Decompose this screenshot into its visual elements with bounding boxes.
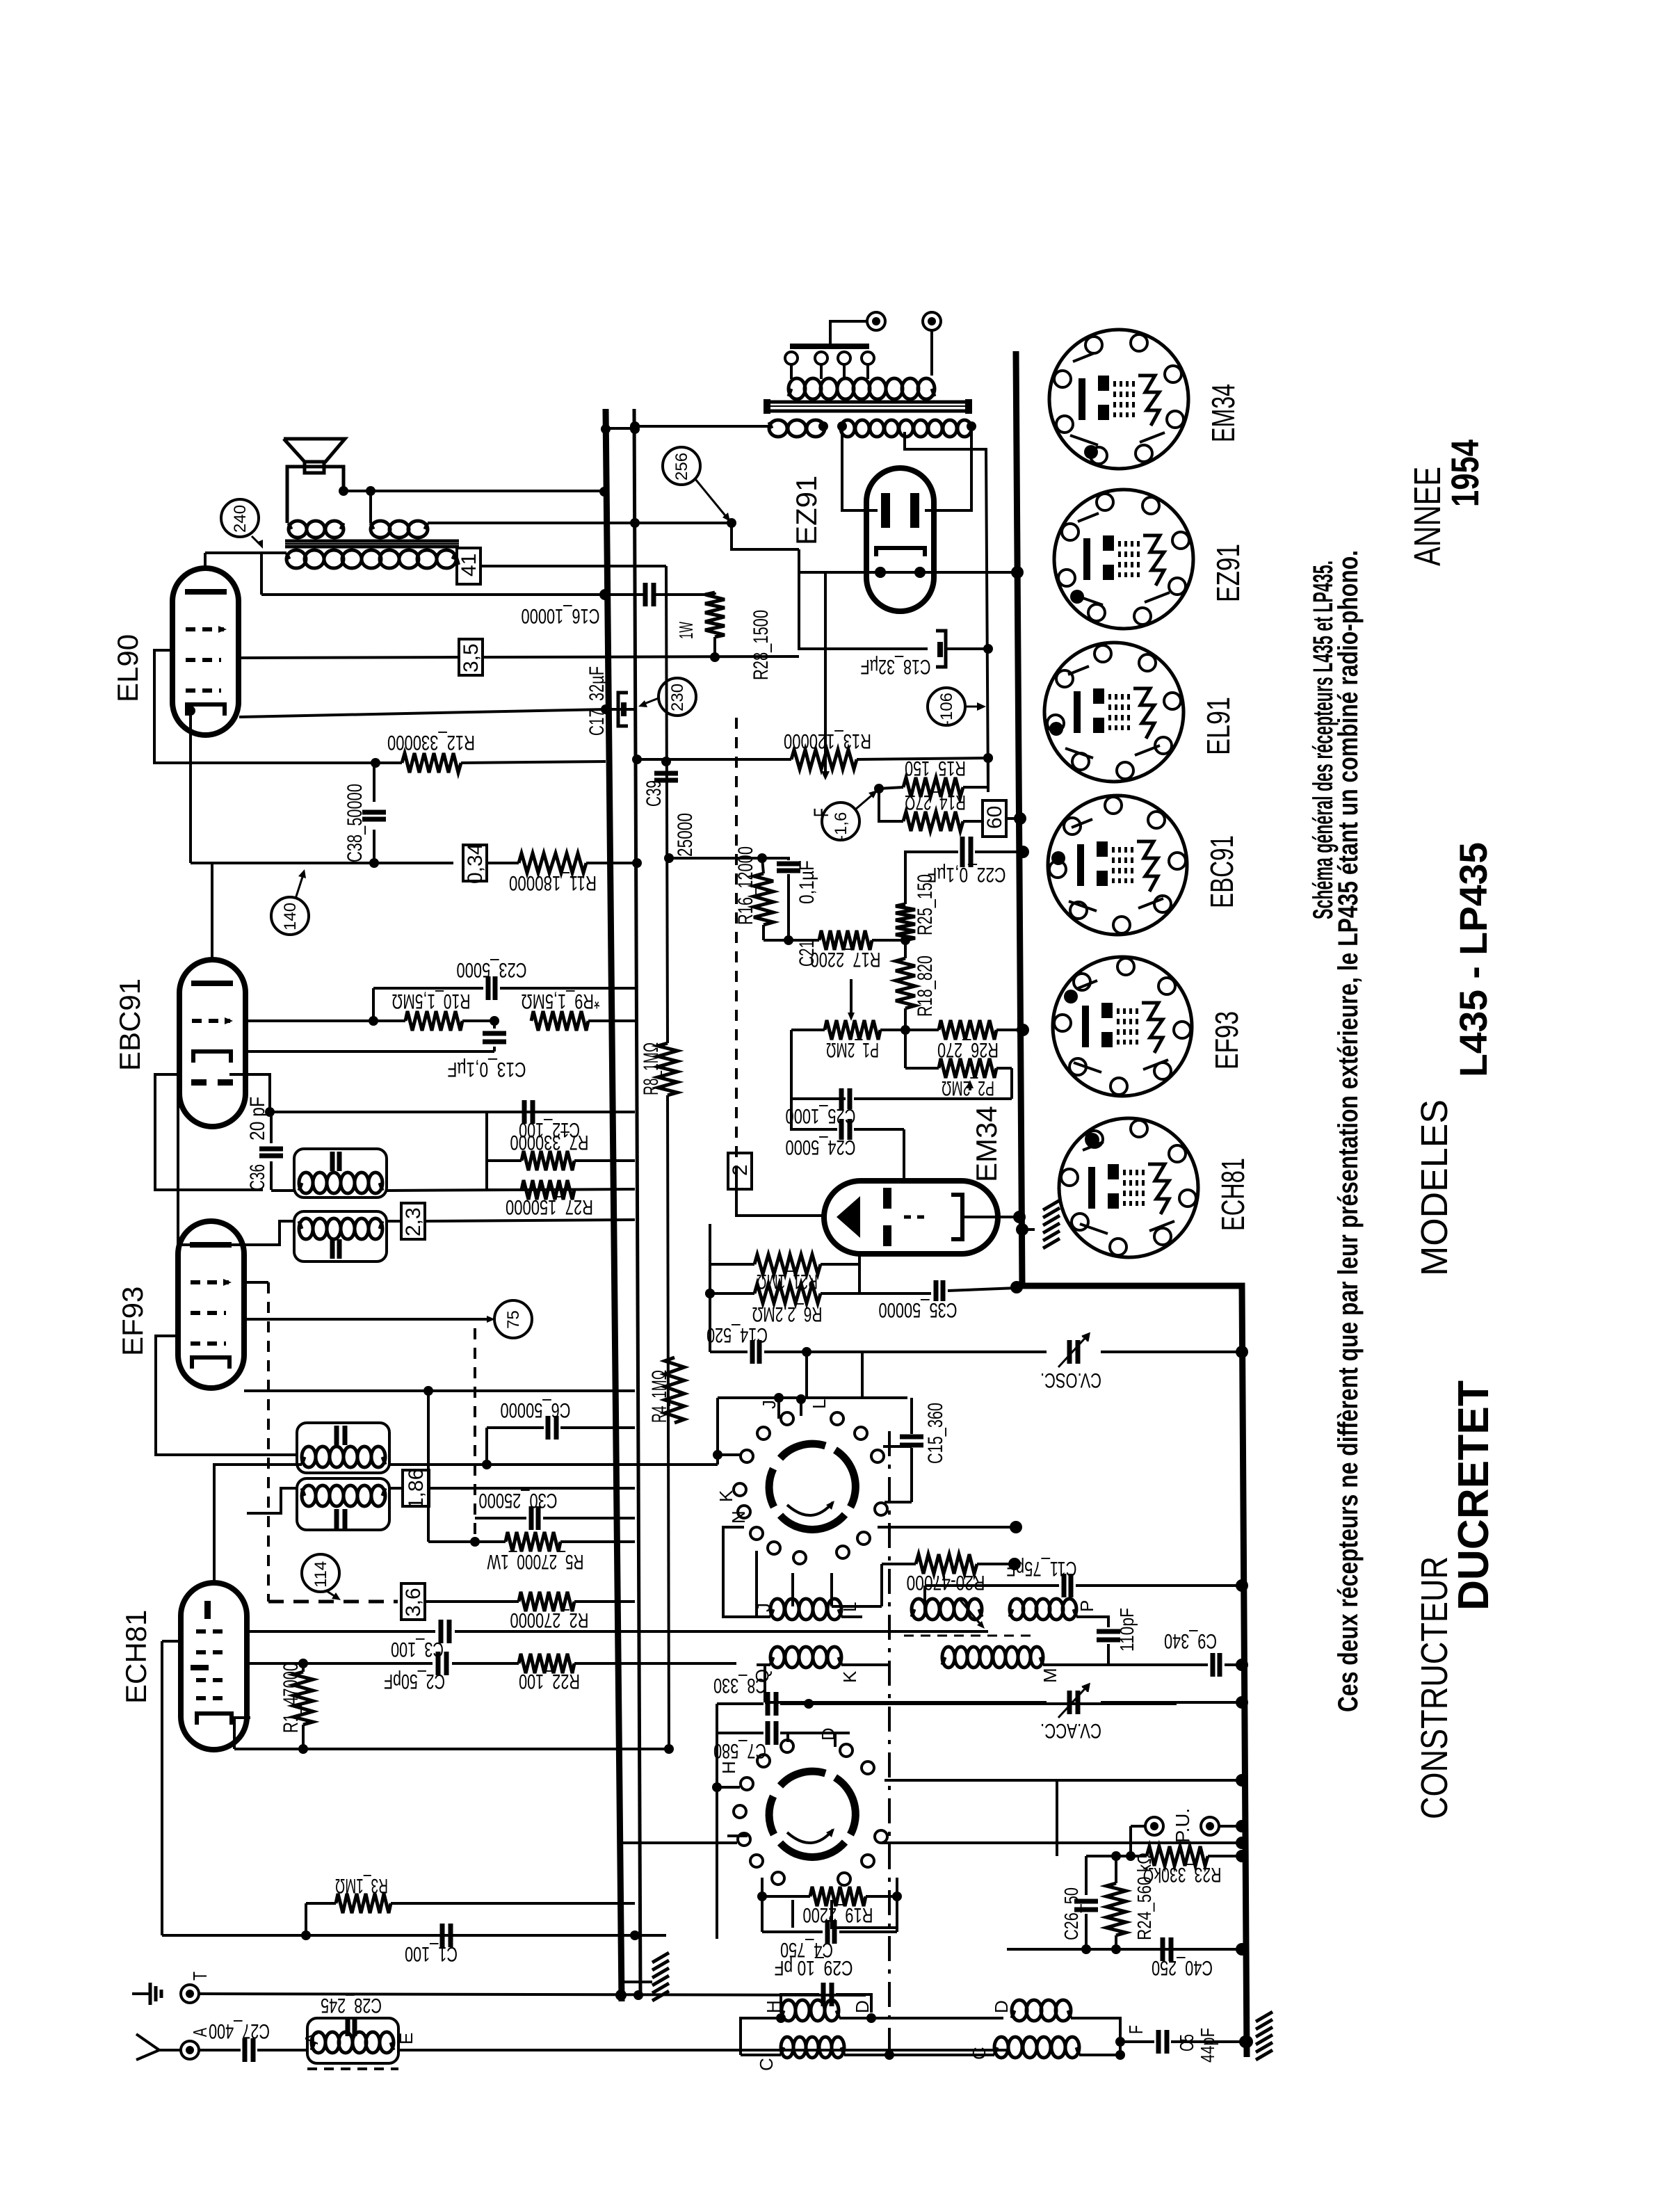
capacitor C12_100: [522, 1100, 527, 1124]
svg-text:E: E: [396, 2033, 417, 2045]
wire S1 J contact leads: [777, 1398, 780, 1419]
svg-text:C8_330: C8_330: [713, 1674, 766, 1697]
svg-text:J: J: [753, 1603, 774, 1612]
chassis ground near ECH81 socket: [1043, 1200, 1060, 1210]
svg-text:C13_0,1µF: C13_0,1µF: [448, 1058, 526, 1081]
node 230: [659, 678, 696, 716]
wire main HT bus (left heavy vertical): [606, 409, 622, 2001]
wire ECH81 hexode grid to C2: [248, 1662, 433, 1665]
wire osc grid line down: [805, 1352, 808, 1398]
wire C18 loop: [799, 572, 928, 649]
svg-text:P1_2MΩ: P1_2MΩ: [826, 1038, 879, 1061]
wire S1 right lower contact line: [878, 1526, 1016, 1529]
capacitor C25_1000: [839, 1088, 844, 1109]
svg-text:ECH81: ECH81: [1215, 1158, 1251, 1231]
svg-text:C: C: [969, 2047, 990, 2060]
svg-text:R8_1MΩ: R8_1MΩ: [640, 1042, 663, 1095]
svg-text:EZ91: EZ91: [1210, 544, 1246, 602]
capacitor C13_0,1uF: [493, 1021, 496, 1029]
IF can T2 bottom winding: [297, 1478, 389, 1530]
wire Q-K coil leads: [757, 1663, 770, 1666]
svg-text:R1_47000: R1_47000: [280, 1663, 302, 1733]
socket ECH81: [1059, 1118, 1198, 1257]
capacitor C15_360: [900, 1435, 923, 1440]
tube EM34 indicator: [824, 1181, 998, 1254]
tube EZ91 rectifier: [866, 468, 934, 611]
output transformer T primary coils: [289, 523, 291, 529]
resistor R11_180000: [487, 862, 519, 864]
svg-text:MODELES: MODELES: [1414, 1099, 1455, 1276]
resistor R27_150000: [522, 1180, 574, 1200]
wire EF93 g3/cathode line: [244, 1389, 428, 1392]
wire y752 right run: [428, 522, 635, 524]
wire EBC91 cathode line: [245, 1050, 494, 1053]
svg-text:L: L: [839, 1602, 860, 1612]
wire secondary right to box 41: [455, 553, 459, 565]
svg-text:EL91: EL91: [1200, 697, 1236, 755]
wire S2 left contacts: [717, 1786, 740, 1789]
IF can T3 top winding: [294, 1149, 387, 1198]
resistor R24_560k: [1106, 1883, 1126, 1935]
svg-text:2: 2: [729, 1164, 752, 1176]
wire vertical x1031 (switch column): [716, 1704, 718, 1939]
wire EM34 right to ground bus: [962, 1216, 1019, 1218]
svg-text:R4_1MΩ: R4_1MΩ: [648, 1370, 671, 1423]
svg-text:20 pF: 20 pF: [246, 1097, 269, 1140]
mains taps: [785, 352, 798, 364]
capacitor 110pF: [1076, 1617, 1108, 1627]
wire EM34 bottom to R21/R6: [858, 1254, 861, 1293]
svg-text:D: D: [852, 2000, 873, 2013]
capacitor C9_340: [1108, 1663, 1208, 1666]
node -106: [928, 688, 965, 725]
capacitor C7_580: [717, 1732, 764, 1734]
resistor R20-47000: [882, 1563, 916, 1565]
rotary switch S1 (oscillator): [835, 1450, 855, 1507]
svg-text:C26_50: C26_50: [1060, 1887, 1082, 1940]
wire top link bus1-bus2: [606, 427, 635, 430]
svg-text:R12_330000: R12_330000: [387, 731, 475, 754]
svg-text:C: C: [756, 2058, 777, 2071]
resistor R14_27: [879, 789, 903, 821]
svg-text:C24_5000: C24_5000: [786, 1136, 856, 1159]
svg-text:C39: C39: [643, 780, 665, 807]
svg-text:R22_100: R22_100: [519, 1670, 580, 1693]
capacitor C36 20pF: [259, 1147, 283, 1152]
wire -1,6 feed from left: [635, 788, 879, 789]
svg-text:CONSTRUCTEUR: CONSTRUCTEUR: [1414, 1556, 1455, 1819]
IF can T3 bottom winding: [294, 1211, 387, 1261]
capacitor C6 50000: [487, 1426, 544, 1429]
wire secondary left to EL90 plate: [205, 551, 286, 554]
svg-text:0,1µF: 0,1µF: [795, 860, 818, 904]
svg-text:L: L: [809, 1399, 830, 1409]
svg-text:R27_150000: R27_150000: [506, 1195, 593, 1218]
svg-text:M: M: [1040, 1668, 1060, 1683]
IF can T2 top winding: [297, 1423, 389, 1473]
svg-text:EM34: EM34: [970, 1106, 1003, 1182]
svg-text:P2_2MΩ: P2_2MΩ: [942, 1077, 994, 1099]
svg-text:R24_560 kΩ: R24_560 kΩ: [1133, 1853, 1155, 1940]
svg-text:R10_1,5MΩ: R10_1,5MΩ: [392, 990, 471, 1013]
wire R7/R27 left link: [485, 1161, 488, 1190]
earth ground + terminal T: [132, 1992, 150, 1995]
mains primary bar: [790, 344, 869, 349]
svg-text:-1,6: -1,6: [832, 812, 850, 841]
capacitor C27_400: [199, 2049, 241, 2051]
capacitor C39 25000: [654, 771, 678, 776]
box 3,6: [401, 1583, 425, 1620]
coil P: [1010, 1609, 1012, 1617]
wire EZ91 cathode line to bus: [799, 571, 1017, 574]
node 75: [494, 1300, 532, 1338]
resistor R21_1M: [723, 1263, 754, 1266]
capacitor C3_100: [439, 1620, 444, 1643]
svg-text:EZ91: EZ91: [790, 476, 823, 545]
tube ECH81: [181, 1583, 247, 1750]
svg-text:C22_0,1µF: C22_0,1µF: [928, 863, 1006, 886]
wire E to right: [398, 2049, 1007, 2051]
svg-text:R17_2200: R17_2200: [811, 948, 881, 971]
svg-text:N: N: [728, 1510, 749, 1524]
svg-text:32µF: 32µF: [585, 666, 608, 701]
resistor R2_270000: [426, 1600, 519, 1603]
wire R16 screen feed from B+ riser: [669, 857, 762, 860]
svg-text:C36: C36: [246, 1164, 269, 1191]
svg-text:C35_50000: C35_50000: [879, 1298, 958, 1321]
power transformer core: [768, 401, 970, 404]
svg-text:EF93: EF93: [116, 1287, 149, 1356]
svg-text:2,3: 2,3: [402, 1207, 425, 1236]
svg-text:ANNEE: ANNEE: [1407, 467, 1448, 566]
svg-text:R18_820: R18_820: [914, 956, 937, 1017]
wire S1 K contact: [723, 1527, 744, 1593]
node 140: [271, 897, 309, 935]
resistor R9_1,5M: [531, 1011, 588, 1031]
wire EBC91 grid line: [245, 1019, 373, 1022]
svg-text:DUCRETET: DUCRETET: [1450, 1380, 1498, 1611]
socket EBC91: [1048, 796, 1187, 935]
wire 3,6 line (dashed): [268, 1600, 398, 1604]
S1 contacts: [781, 1412, 793, 1425]
wire EBC91 diode line to C12: [229, 1074, 635, 1112]
resistor R25_150: [896, 904, 915, 940]
svg-text:1954: 1954: [1443, 440, 1487, 507]
socket EL91: [1044, 643, 1184, 782]
antenna coil A-E with C28: [307, 2018, 398, 2063]
svg-text:EF93: EF93: [1209, 1011, 1245, 1070]
wire S1 right contacts to C15: [883, 1445, 912, 1448]
mains primary winding: [789, 389, 791, 396]
wire ECH81 triode grid to C3: [248, 1630, 435, 1633]
svg-text:3,6: 3,6: [402, 1588, 425, 1617]
svg-text:L435 - LP435: L435 - LP435: [1451, 842, 1495, 1077]
capacitor C5 44pF: [1120, 2040, 1154, 2043]
resistor R17_2200: [764, 939, 819, 942]
wire heater winding to B+ bus: [635, 425, 769, 428]
resistor R15_150: [874, 784, 884, 793]
potentiometer P1_2M: [791, 1029, 825, 1031]
svg-text:R11_180000: R11_180000: [509, 871, 597, 894]
node 240: [221, 499, 259, 537]
svg-text:F: F: [1125, 2025, 1147, 2034]
resistor R13_120000: [635, 758, 791, 761]
svg-text:240: 240: [231, 505, 250, 533]
svg-text:EL90: EL90: [111, 634, 144, 702]
wire bottom-left of PU zone: [1056, 1780, 1058, 1856]
resistor R3_1M: [306, 1902, 336, 1905]
wire 256 node down and right (filament line): [732, 523, 799, 549]
socket EZ91: [1054, 490, 1193, 629]
chassis ground at bus1 bottom: [652, 1953, 669, 1962]
svg-text:75: 75: [504, 1310, 523, 1329]
wire H coil left lead: [741, 2018, 781, 2055]
svg-text:C15_360: C15_360: [924, 1403, 947, 1464]
svg-text:R28_1500: R28_1500: [750, 610, 773, 680]
svg-text:A: A: [189, 2028, 211, 2037]
resistor R22_100: [519, 1654, 574, 1673]
wire x1100 riser: [764, 1665, 766, 1702]
capacitor C1_100: [440, 1924, 445, 1947]
svg-text:EM34: EM34: [1205, 384, 1241, 442]
mains terminals: [867, 312, 885, 330]
node 114: [302, 1554, 339, 1592]
svg-text:60: 60: [983, 806, 1006, 829]
svg-text:EBC91: EBC91: [1204, 835, 1240, 908]
svg-text:C30_25000: C30_25000: [479, 1489, 558, 1512]
wire EL90 cathode to C17 line: [239, 709, 606, 717]
speaker LS: [284, 439, 345, 462]
wire heavy ground bus (right): [1016, 351, 1247, 2057]
wire 0,34 line: [191, 862, 374, 864]
coil C (bottom left): [781, 2047, 784, 2055]
long coil M: [942, 1657, 945, 1665]
resistor R8_1M: [658, 1043, 677, 1095]
svg-text:44pF: 44pF: [1197, 2028, 1218, 2063]
svg-text:114: 114: [312, 1561, 330, 1588]
svg-text:C14_520: C14_520: [706, 1323, 768, 1346]
wire S2 right contact lines: [885, 1779, 1242, 1782]
capacitor C30 25000: [475, 1517, 526, 1519]
wire EZ91 plate feeds: [842, 426, 878, 510]
svg-text:3,5: 3,5: [460, 643, 483, 672]
tube EF93: [178, 1221, 244, 1388]
oscillator coil J-L: [770, 1609, 773, 1617]
rotary switch S2 (band): [835, 1777, 855, 1835]
tube EL90: [172, 568, 239, 735]
capacitor C14 520: [709, 1293, 711, 1352]
node -1,6: [822, 803, 859, 840]
capacitor C16_10000: [643, 583, 648, 606]
HT secondary winding: [841, 422, 843, 428]
antenna: [136, 2034, 159, 2060]
capacitor C2_50pF: [436, 1652, 441, 1675]
svg-text:R6_2,2MΩ: R6_2,2MΩ: [752, 1303, 823, 1325]
wire dashed AVC vertical x1059: [735, 718, 738, 1177]
wire T line: [199, 1994, 866, 1995]
wire speaker line y706 to bus junction: [604, 595, 605, 597]
wire PU line: [1131, 1825, 1145, 1828]
capacitor C11 75pF: [925, 1584, 1059, 1587]
wire S1 left contacts to x1032: [718, 1453, 741, 1456]
wire EF93 plate: [177, 1022, 179, 1245]
resistor R26_270: [905, 1029, 939, 1031]
wire y2803 line: [1007, 1948, 1242, 1951]
box 2: [728, 1153, 752, 1189]
wire EM34 left grid feed: [736, 1177, 823, 1216]
svg-text:R19_2200: R19_2200: [803, 1903, 873, 1926]
svg-text:C1_100: C1_100: [405, 1942, 458, 1965]
svg-text:C5: C5: [1176, 2034, 1197, 2051]
wire C24 to EM34 frame: [903, 1129, 905, 1180]
output transformer secondary: [286, 553, 289, 559]
svg-text:P.U.: P.U.: [1172, 1808, 1193, 1843]
svg-text:1W: 1W: [675, 622, 697, 639]
box 2,3: [387, 1220, 401, 1223]
svg-text:41: 41: [458, 554, 480, 577]
wire S1 bottom contacts: [791, 1573, 794, 1606]
svg-text:C11_75pF: C11_75pF: [1007, 1557, 1077, 1580]
wire S2 H lead: [727, 1835, 748, 1837]
wire ECH81 plate riser to T2: [214, 1465, 302, 1583]
node 256: [663, 447, 700, 485]
capacitor C21 0,1uF: [762, 858, 789, 860]
svg-text:R15_150: R15_150: [905, 757, 966, 780]
output transformer core: [285, 540, 459, 543]
wire y752 line to EZ91 region: [635, 522, 732, 524]
capacitor C8_330: [717, 1702, 764, 1705]
wire S2 bottom contacts: [791, 1900, 794, 1928]
svg-text:C23_5000: C23_5000: [457, 958, 527, 981]
svg-text:0,34: 0,34: [464, 844, 487, 884]
wire EL90 grid return (left) to R12 line: [154, 650, 375, 763]
svg-text:K: K: [839, 1670, 860, 1683]
resistor R16_12000: [762, 858, 764, 873]
svg-text:230: 230: [668, 684, 687, 711]
wire osc top line: [718, 1396, 907, 1399]
svg-text:C18_32µF: C18_32µF: [861, 655, 931, 678]
wire CV.OSC line: [807, 1351, 1047, 1353]
wire F junction: [1093, 2018, 1120, 2055]
wire R21/R6 left rail: [709, 1224, 711, 1352]
wire EF93 g1 dashed down: [267, 1282, 270, 1602]
oscillator coil Q-K: [770, 1657, 773, 1665]
svg-text:C2_50pF: C2_50pF: [384, 1670, 445, 1693]
rectifier heater winding: [769, 422, 772, 428]
svg-text:C9_340: C9_340: [1164, 1629, 1217, 1652]
box 3,5: [459, 639, 483, 675]
resistor R5_27000_1W: [428, 1540, 506, 1543]
wire bus 2 (B+ vertical): [634, 409, 640, 1997]
wire EBC91 bottom left loop: [155, 1074, 263, 1190]
svg-text:P: P: [1076, 1600, 1097, 1612]
resistor R7_330000: [522, 1151, 574, 1170]
svg-text:CV.OSC.: CV.OSC.: [1040, 1369, 1101, 1392]
box 0,34: [374, 862, 453, 864]
svg-text:D: D: [991, 2000, 1012, 2013]
wire S1 N contact lead: [755, 1551, 758, 1617]
wire dash-dot mechanical link (tuning): [888, 1431, 891, 2051]
svg-text:C6_50000: C6_50000: [501, 1398, 571, 1421]
wire HT centre tap -106 line: [905, 432, 988, 792]
coil D (bottom right): [1012, 2010, 1015, 2018]
resistor R10_1,5M: [373, 1019, 405, 1022]
wire T2 top winding right: [389, 1463, 718, 1466]
box 1,86: [389, 1487, 401, 1490]
wire S2 top leads: [786, 1733, 789, 1742]
resistor R23_330k: [1131, 1855, 1147, 1857]
wire T3 top to grid/plate runs: [387, 1189, 635, 1191]
wire filament F arrow: [824, 572, 827, 776]
capacitor C26_50: [1074, 1899, 1098, 1904]
wire grid junction to C23: [372, 988, 375, 1021]
svg-text:256: 256: [672, 453, 691, 481]
svg-text:H: H: [718, 1761, 739, 1774]
potentiometer P2_2M: [939, 1058, 996, 1078]
wire P1 left loop: [791, 1030, 846, 1099]
svg-text:H: H: [763, 2000, 784, 2013]
tube EBC91: [179, 960, 245, 1127]
svg-text:140: 140: [281, 903, 300, 930]
svg-text:R14_27Ω: R14_27Ω: [905, 791, 966, 814]
dashed vertical from 75 node: [474, 1328, 476, 1537]
svg-text:CV.ACC.: CV.ACC.: [1040, 1719, 1101, 1742]
svg-text:-106: -106: [937, 693, 956, 726]
wire T3 left risers: [271, 1189, 294, 1192]
wire R23 left riser: [1086, 1855, 1131, 1857]
resistor R28_1500 1W: [705, 592, 725, 637]
capacitor C17 32uF: [606, 708, 635, 711]
svg-text:R2_270000: R2_270000: [510, 1609, 589, 1631]
wire EL90 g2 to box 3,5: [239, 657, 458, 658]
svg-text:A: A: [301, 2032, 322, 2045]
svg-text:C28_245: C28_245: [321, 1994, 382, 2017]
svg-text:C40_250: C40_250: [1152, 1956, 1213, 1979]
resistor R12_330000: [375, 761, 402, 764]
capacitor C4_750: [762, 1930, 823, 1933]
capacitor C18_32uF: [936, 631, 946, 667]
svg-text:T: T: [189, 1972, 211, 1981]
svg-text:R7_330000: R7_330000: [510, 1131, 589, 1154]
svg-text:C38_50000: C38_50000: [344, 784, 366, 862]
svg-text:C17: C17: [585, 709, 608, 736]
resistor R1_47000: [293, 1672, 313, 1725]
wire EF93 cathode left loop: [156, 1336, 297, 1455]
wire osc line riser: [861, 1352, 864, 1398]
svg-text:C25_1000: C25_1000: [786, 1104, 856, 1127]
svg-text:C29_10 pF: C29_10 pF: [775, 1956, 853, 1979]
wire EF93 g2 to node 75: [244, 1318, 491, 1321]
svg-text:R20-47000: R20-47000: [907, 1571, 985, 1594]
svg-text:1,86: 1,86: [405, 1469, 428, 1509]
wire EBC91 plate riser: [211, 863, 213, 960]
padder coil right (with arrow): [912, 1609, 914, 1617]
resistor R4_1M: [665, 1357, 684, 1423]
PU terminals: [1145, 1817, 1163, 1835]
wire vertical feed line x958: [666, 566, 668, 1043]
svg-text:C27_400: C27_400: [209, 2019, 270, 2042]
svg-text:EBC91: EBC91: [113, 978, 146, 1071]
svg-text:C16_10000: C16_10000: [522, 604, 600, 627]
wire speaker to bus: [344, 490, 604, 492]
capacitor C38_50000: [373, 763, 375, 802]
wire C39 down from R12 line: [606, 761, 669, 762]
svg-text:ECH81: ECH81: [120, 1610, 152, 1704]
resistor R19_2200: [762, 1895, 810, 1898]
wire ECH81 left down x233: [161, 1641, 163, 1935]
svg-text:110pF: 110pF: [1116, 1608, 1138, 1652]
svg-text:R13_120000: R13_120000: [784, 729, 871, 752]
